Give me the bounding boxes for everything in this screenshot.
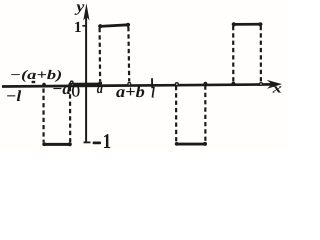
y-axis bottom tick [84,141,91,143]
svg-text:1: 1 [103,129,112,153]
speck above axis near -(a+b) [32,81,36,83]
axis dot at a [98,81,102,85]
svg-text:l: l [151,85,155,102]
open circle left of origin [70,81,73,84]
left pulse: solid bottom at y=-1 [44,143,71,146]
svg-text:−l: −l [6,88,22,105]
label -1 [93,142,101,145]
far right pulse: solid top at y=1 [233,23,261,26]
left pulse bottom corner dot right [68,142,72,146]
svg-text:1: 1 [74,19,82,36]
open circle at l [175,83,178,86]
left pulse: dashed left edge at x=-(a+b) [42,89,44,143]
svg-text:x: x [271,81,282,96]
y-axis [85,10,87,143]
axis dot at -a [69,82,73,86]
axis dot at -(a+b) [42,83,46,87]
right pulse bottom corner dot left [175,142,179,146]
x-axis [2,84,276,86]
axis dot at far right pulse left [232,82,236,86]
top pulse 1 corner dot left [98,24,102,28]
axis dot at right edge of right pulse [204,82,208,86]
far right pulse corner dot right [258,22,262,26]
far right pulse corner dot left [232,22,236,26]
svg-text:a: a [97,81,104,97]
tick y=1 on y-axis [82,25,86,27]
left pulse: dashed right edge at x=-a [69,87,71,142]
top pulse 1: solid top at y=1 [100,25,129,27]
thicker zero segment from O to a [73,83,100,86]
far right pulse: dashed left edge [232,26,234,82]
far right pulse: dashed right edge [260,26,262,82]
right pulse: solid bottom at y=-1 [176,143,205,146]
svg-text:a+b: a+b [116,82,145,101]
open circle at a+b [128,83,131,86]
left pulse bottom corner dot left [42,142,46,146]
right pulse: dashed left edge at x=l (open circle above) [175,86,177,142]
right pulse: dashed right edge [204,86,206,142]
tick at l on x-axis [151,78,153,88]
top pulse 1: dashed left edge at x=a [98,28,101,81]
svg-text:y: y [74,0,84,16]
x-axis arrowhead [267,80,282,89]
top pulse 1: dashed right edge at x=a+b [127,27,130,82]
open circle at far right pulse right [260,83,263,86]
svg-text:O: O [71,82,80,101]
svg-text:−a: −a [52,79,71,98]
y-axis arrowhead [83,3,89,20]
top pulse 1 corner dot right [126,23,130,27]
right pulse bottom corner dot right [203,142,207,146]
